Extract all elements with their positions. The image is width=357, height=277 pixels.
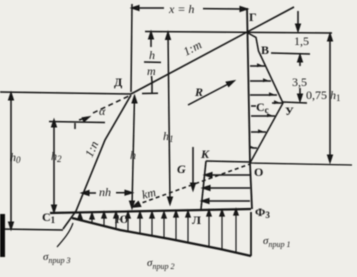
svg-text:h: h	[149, 48, 155, 62]
U extension line	[283, 102, 307, 103]
left slope line 1:n	[63, 95, 131, 229]
dimension x=h line	[132, 6, 247, 11]
svg-text:σприр 3: σприр 3	[43, 251, 70, 265]
svg-text:1:m: 1:m	[181, 37, 204, 58]
svg-text:0,75 h1: 0,75 h1	[306, 88, 341, 103]
svg-text:3,5: 3,5	[292, 75, 307, 89]
pressure arrow y148	[252, 147, 257, 149]
slope line 1:m from point D to top right	[131, 7, 294, 94]
svg-text:Л: Л	[192, 213, 201, 227]
svg-text:h0: h0	[10, 150, 21, 165]
B extension line	[271, 53, 310, 54]
svg-text:Ю: Ю	[115, 212, 129, 226]
pressure arrow y66	[250, 65, 265, 67]
svg-text:h: h	[130, 148, 136, 162]
svg-text:R: R	[194, 85, 203, 99]
block internal arrows pointing left	[202, 173, 250, 203]
alpha reference horizontal line	[49, 122, 105, 123]
slope indicator triangle	[142, 92, 158, 94]
svg-text:h1: h1	[163, 129, 174, 144]
sigma leader curve	[57, 223, 73, 247]
svg-text:Сс: Сс	[256, 100, 269, 115]
svg-text:α: α	[99, 104, 106, 118]
G force arrow	[191, 147, 195, 190]
bottom distributed load arrows	[78, 209, 238, 253]
right closing edge of bottom distribution	[250, 212, 252, 256]
h dimension line	[130, 96, 137, 208]
R force arrow	[188, 81, 234, 105]
pressure arrow Cc level	[272, 102, 282, 104]
svg-text:Д: Д	[114, 75, 123, 89]
fraction bar h/m	[144, 61, 161, 63]
pressure arrow y132	[251, 131, 266, 133]
h0 dimension	[9, 93, 13, 229]
0,75h1 arrow	[298, 88, 302, 101]
h2 dimension	[52, 120, 56, 212]
base load line	[50, 209, 251, 213]
svg-text:G: G	[177, 162, 186, 176]
dashed km line	[133, 164, 250, 207]
dashed alpha line	[93, 95, 131, 113]
svg-text:У: У	[285, 104, 294, 118]
lower-left ground line	[0, 229, 63, 230]
alpha tick	[74, 123, 76, 129]
svg-text:x = h: x = h	[168, 2, 194, 16]
svg-text:Ф3: Ф3	[255, 205, 270, 220]
bottom slant boundary	[72, 218, 251, 256]
tick before Cc	[251, 105, 256, 107]
left edge scan artifact	[0, 214, 5, 257]
extension line above D	[131, 4, 132, 92]
svg-text:Г: Г	[249, 10, 257, 24]
block left edge	[201, 161, 206, 209]
pressure outline on wall	[248, 33, 283, 163]
block top edge K	[206, 161, 250, 162]
svg-text:h2: h2	[51, 149, 62, 164]
pressure arrow y116	[251, 115, 275, 117]
svg-text:В: В	[261, 43, 269, 57]
h1 dimension line	[166, 33, 172, 205]
svg-text:K: K	[200, 147, 210, 161]
ground line right of wall at O	[250, 163, 352, 165]
upper-left ground line	[0, 92, 131, 94]
svg-text:m: m	[147, 64, 156, 78]
h over m fraction arrows	[149, 32, 153, 82]
pressure arrow y81	[250, 80, 271, 82]
wall line	[247, 8, 252, 209]
svg-text:nh: nh	[99, 185, 111, 199]
pressure arrow y95	[250, 94, 277, 96]
svg-text:σприр 1: σприр 1	[263, 235, 290, 249]
right tall dimension line	[328, 34, 332, 162]
svg-text:σприр 2: σприр 2	[147, 257, 174, 271]
svg-text:km: km	[140, 185, 157, 202]
nh dimension	[82, 191, 132, 196]
top horizontal line	[145, 32, 332, 34]
svg-text:1,5: 1,5	[294, 34, 309, 48]
1,5 dimension arrows	[296, 11, 302, 66]
svg-text:О: О	[254, 165, 263, 179]
